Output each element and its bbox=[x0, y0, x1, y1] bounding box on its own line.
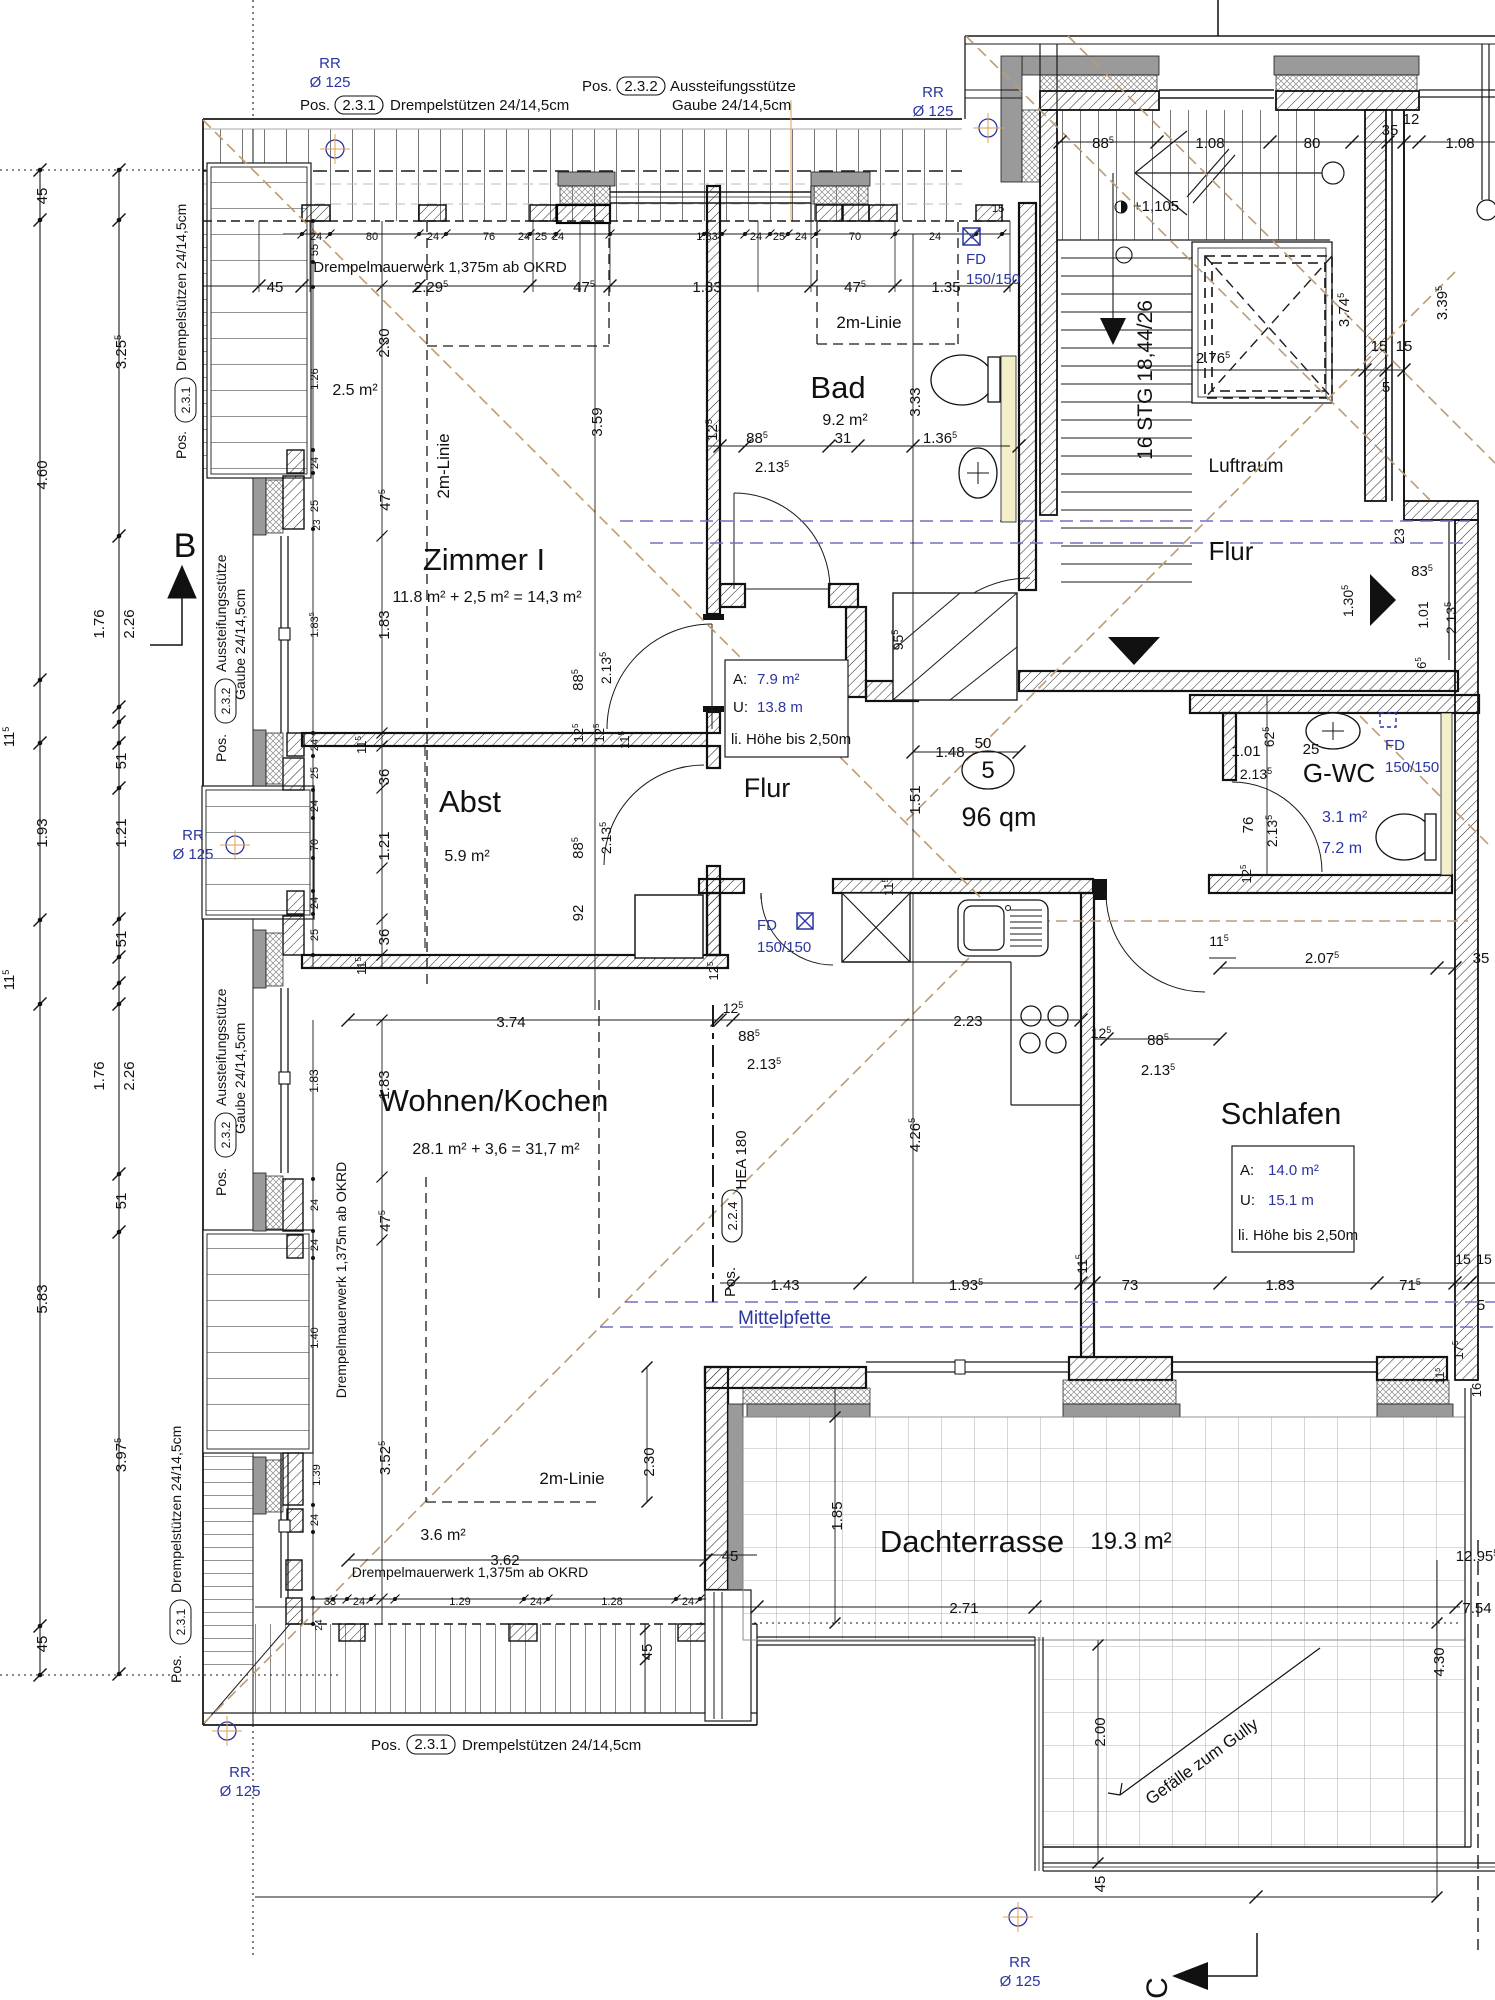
dormer box left 1 (Zimmer I gaube) bbox=[207, 163, 311, 478]
svg-text:2.3.1: 2.3.1 bbox=[174, 1608, 188, 1635]
svg-text:2.26: 2.26 bbox=[121, 609, 138, 638]
svg-text:Pos.: Pos. bbox=[582, 78, 612, 95]
door arc Bad bbox=[734, 493, 830, 589]
svg-text:24: 24 bbox=[309, 739, 321, 751]
svg-text:16 STG 18,44/26: 16 STG 18,44/26 bbox=[1134, 300, 1157, 460]
svg-text:Flur: Flur bbox=[1209, 536, 1254, 566]
wall terrace left vertical bbox=[705, 1367, 728, 1590]
stairwell gray cap right bbox=[1274, 56, 1419, 75]
RR marker bottom-center bbox=[1009, 1908, 1027, 1926]
svg-text:Ø 125: Ø 125 bbox=[173, 846, 214, 863]
left gray cap 4 bbox=[253, 1173, 266, 1231]
svg-text:12: 12 bbox=[1403, 111, 1420, 128]
dormer box left 3 (Wohnen gaube) bbox=[203, 1230, 313, 1453]
svg-text:35: 35 bbox=[1473, 950, 1490, 967]
left dormer window 3 bbox=[280, 1453, 282, 1598]
svg-text:45: 45 bbox=[34, 188, 51, 205]
svg-text:24: 24 bbox=[750, 231, 762, 243]
svg-text:25: 25 bbox=[309, 929, 321, 941]
svg-text:5.9 m²: 5.9 m² bbox=[444, 848, 490, 865]
insulation top left bbox=[560, 186, 610, 204]
svg-text:16: 16 bbox=[1469, 1383, 1484, 1397]
left gray cap 3 bbox=[253, 930, 266, 988]
svg-text:25: 25 bbox=[309, 500, 321, 512]
svg-text:51: 51 bbox=[113, 1193, 130, 1210]
gray cap terrace left bbox=[747, 1404, 870, 1417]
svg-text:3.74: 3.74 bbox=[496, 1014, 525, 1031]
stairwell wall hatch right bbox=[1276, 91, 1419, 110]
dim 1.85 terrace bbox=[834, 1388, 836, 1623]
svg-text:Bad: Bad bbox=[810, 370, 865, 405]
stairwell window top bbox=[1159, 89, 1274, 91]
drempel pier blocks top bbox=[302, 205, 330, 221]
toilet Bad bbox=[931, 355, 993, 405]
svg-text:35: 35 bbox=[1382, 122, 1399, 139]
svg-text:4.30: 4.30 bbox=[1431, 1647, 1448, 1676]
RR marker bottom-left bbox=[218, 1722, 236, 1740]
svg-text:24: 24 bbox=[309, 457, 321, 469]
dim chain x313 Wohnen bbox=[312, 1020, 314, 1624]
svg-text:51: 51 bbox=[113, 931, 130, 948]
right outer wall bbox=[1455, 520, 1478, 1380]
top small dim row bbox=[283, 233, 1010, 235]
wall G-WC left bbox=[1223, 713, 1236, 780]
dim chain x313 small bbox=[312, 221, 314, 968]
stairwell insulation left bbox=[1040, 75, 1157, 91]
HEA beam dash-dot line bbox=[712, 1005, 714, 1302]
stair arrow down bbox=[1100, 318, 1126, 345]
level marker circle bbox=[1116, 247, 1132, 263]
roof overhang band bottom bbox=[253, 1624, 757, 1713]
dim row Flur center bbox=[913, 751, 1019, 753]
insulation top right bbox=[813, 186, 868, 204]
2m-line dashed Bad box bbox=[816, 222, 818, 344]
svg-text:2.30: 2.30 bbox=[641, 1447, 658, 1476]
svg-text:Drempelstützen 24/14,5cm: Drempelstützen 24/14,5cm bbox=[390, 97, 569, 114]
neighbour roof edge top-right bbox=[965, 35, 1495, 37]
svg-text:2.3.1: 2.3.1 bbox=[342, 97, 375, 114]
svg-text:Drempelmauerwerk 1,375m ab OKR: Drempelmauerwerk 1,375m ab OKRD bbox=[313, 259, 567, 276]
svg-text:45: 45 bbox=[722, 1548, 739, 1565]
svg-text:Pos.: Pos. bbox=[722, 1267, 739, 1297]
insulation terrace left bbox=[743, 1388, 870, 1404]
svg-text:24: 24 bbox=[309, 897, 321, 909]
svg-text:1.21: 1.21 bbox=[376, 831, 393, 860]
washbasin G-WC bbox=[1306, 713, 1360, 749]
svg-text:Flur: Flur bbox=[744, 773, 791, 803]
roof hip dashed D4 G-WC bbox=[1360, 716, 1490, 846]
toilet G-WC bbox=[1376, 814, 1432, 860]
datum dotted horizontal terrace bbox=[700, 1622, 1460, 1624]
dim row bottom Schlafen bbox=[720, 1282, 1495, 1284]
svg-text:150/150: 150/150 bbox=[757, 939, 811, 956]
svg-text:1.76: 1.76 bbox=[91, 1061, 108, 1090]
svg-text:FD: FD bbox=[1385, 737, 1405, 754]
svg-text:Pos.: Pos. bbox=[173, 431, 189, 459]
svg-text:Mittelpfette: Mittelpfette bbox=[738, 1308, 831, 1329]
RR downpipe reference line top bbox=[790, 100, 792, 221]
svg-text:24: 24 bbox=[353, 1596, 365, 1608]
gray cap top left bbox=[558, 172, 615, 186]
dim row kitchen bbox=[720, 1019, 1081, 1021]
svg-text:Dachterrasse: Dachterrasse bbox=[880, 1524, 1064, 1559]
svg-text:B: B bbox=[174, 527, 197, 565]
roof hip dashed D3b top-right bbox=[1068, 36, 1495, 463]
terrace gutter right bbox=[1464, 1388, 1466, 1847]
svg-text:25: 25 bbox=[535, 231, 547, 243]
wall Flur bottom right run bbox=[1019, 671, 1458, 691]
svg-text:76: 76 bbox=[483, 231, 495, 243]
terrace door window band bbox=[1172, 1361, 1377, 1363]
svg-text:1.28: 1.28 bbox=[601, 1596, 622, 1608]
svg-text:3.59: 3.59 bbox=[589, 407, 606, 436]
svg-text:25: 25 bbox=[309, 767, 321, 779]
dim row Schlafen top bbox=[1220, 967, 1455, 969]
svg-text:1.48: 1.48 bbox=[935, 744, 964, 761]
svg-text:Luftraum: Luftraum bbox=[1209, 456, 1284, 477]
svg-text:FD: FD bbox=[966, 251, 986, 268]
roof overhang band left bbox=[203, 221, 253, 478]
2m-line dashed Wohnen horizontal bbox=[426, 1501, 601, 1503]
info box Schlafen bbox=[1232, 1146, 1354, 1252]
door arc G-WC bbox=[1232, 782, 1322, 872]
svg-text:li. Höhe bis 2,50m: li. Höhe bis 2,50m bbox=[731, 731, 851, 748]
svg-text:Drempelmauerwerk 1,375m ab OKR: Drempelmauerwerk 1,375m ab OKRD bbox=[352, 1564, 589, 1580]
svg-text:1.39: 1.39 bbox=[311, 1464, 323, 1485]
svg-text:2.135: 2.135 bbox=[755, 459, 789, 476]
dim row 3.62 bbox=[348, 1559, 706, 1561]
svg-text:2.3.2: 2.3.2 bbox=[624, 78, 657, 95]
left dim chain outer bbox=[39, 170, 41, 220]
gray cap top right bbox=[811, 172, 870, 186]
svg-text:1.83: 1.83 bbox=[692, 279, 721, 296]
svg-text:2m-Linie: 2m-Linie bbox=[434, 433, 453, 498]
svg-text:9.2 m²: 9.2 m² bbox=[822, 412, 868, 429]
right outer wall jog bbox=[1404, 501, 1478, 520]
left insulation 3 bbox=[266, 933, 283, 986]
left pier blocks lower-a bbox=[287, 891, 304, 914]
svg-text:1.21: 1.21 bbox=[113, 818, 130, 847]
dim 1.51 bbox=[912, 681, 914, 879]
roof hip dashed D3 top-right bbox=[966, 36, 1430, 500]
svg-text:2.135: 2.135 bbox=[747, 1056, 781, 1073]
svg-text:1.76: 1.76 bbox=[91, 609, 108, 638]
tiles strip Bad yellow bbox=[1001, 356, 1016, 522]
svg-text:1.40: 1.40 bbox=[309, 1327, 321, 1348]
roof ridge dashed H1 bbox=[1005, 920, 1468, 922]
svg-text:3.975: 3.975 bbox=[113, 1438, 130, 1472]
svg-text:73: 73 bbox=[1122, 1277, 1139, 1294]
svg-text:96 qm: 96 qm bbox=[961, 802, 1036, 832]
centerline top stairwell bbox=[1217, 0, 1219, 36]
svg-text:Ø 125: Ø 125 bbox=[1000, 1973, 1041, 1990]
door jamb Zimmer I bbox=[703, 614, 724, 620]
svg-text:Gaube 24/14,5cm: Gaube 24/14,5cm bbox=[232, 1023, 248, 1134]
svg-text:RR: RR bbox=[182, 827, 204, 844]
wall kitchen / Flur bbox=[833, 879, 1093, 893]
door arc Abst bbox=[604, 765, 704, 865]
svg-text:45: 45 bbox=[267, 279, 284, 296]
svg-text:2.2.4: 2.2.4 bbox=[725, 1202, 740, 1231]
svg-text:1.83: 1.83 bbox=[307, 1069, 321, 1093]
left dormer window 2 (Abst gaube) bbox=[280, 988, 282, 1173]
svg-text:2.5 m²: 2.5 m² bbox=[332, 382, 378, 399]
terrace rail vertical bbox=[1034, 1637, 1036, 1871]
storage box Flur bbox=[635, 895, 703, 958]
svg-text:2m-Linie: 2m-Linie bbox=[539, 1469, 604, 1488]
dim 3.33 Bad bbox=[912, 234, 914, 681]
left pier blocks upper bbox=[287, 450, 304, 473]
svg-text:Drempelstützen 24/14,5cm: Drempelstützen 24/14,5cm bbox=[462, 1737, 641, 1754]
wall Flur/Wohnen corner bbox=[699, 879, 744, 893]
svg-text:28.1 m² + 3,6 = 31,7 m²: 28.1 m² + 3,6 = 31,7 m² bbox=[412, 1141, 580, 1158]
dim 4.26 kitchen bbox=[912, 893, 914, 1283]
svg-text:2.3.1: 2.3.1 bbox=[414, 1736, 447, 1753]
dim row Schlafen bbox=[1094, 1038, 1220, 1040]
svg-text:24: 24 bbox=[309, 1239, 321, 1251]
terrace rail upper-left horizontal bbox=[757, 1636, 1035, 1638]
stair run arrow bbox=[1135, 172, 1322, 174]
svg-text:RR: RR bbox=[1009, 1954, 1031, 1971]
drempel pier blocks bottom bbox=[339, 1624, 365, 1641]
svg-text:1.01: 1.01 bbox=[1231, 743, 1260, 760]
svg-text:45: 45 bbox=[639, 1644, 656, 1661]
svg-text:5: 5 bbox=[981, 757, 994, 784]
svg-text:45: 45 bbox=[34, 1636, 51, 1653]
door arc Zimmer I bbox=[607, 624, 712, 729]
svg-text:1.93: 1.93 bbox=[34, 818, 51, 847]
svg-text:2.3.1: 2.3.1 bbox=[179, 386, 193, 413]
svg-text:1.51: 1.51 bbox=[907, 785, 924, 814]
svg-text:RR: RR bbox=[229, 1764, 251, 1781]
dim line bottom rail bbox=[255, 1896, 1437, 1898]
RR marker top-right bbox=[979, 119, 997, 137]
dim 45 terrace left bbox=[705, 1554, 757, 1556]
svg-text:24: 24 bbox=[795, 231, 807, 243]
svg-text:92: 92 bbox=[570, 905, 587, 922]
left insulation 1 bbox=[266, 480, 283, 533]
svg-text:2.765: 2.765 bbox=[1196, 350, 1230, 367]
left pier blocks mid bbox=[287, 733, 304, 756]
left insulation 5 bbox=[266, 1460, 283, 1512]
left gray cap 1 bbox=[253, 478, 266, 535]
svg-text:Schlafen: Schlafen bbox=[1221, 1096, 1342, 1131]
wall Bad bottom-left horizontal bbox=[720, 584, 745, 607]
svg-text:Aussteifungsstütze: Aussteifungsstütze bbox=[670, 78, 796, 95]
wall terrace top-left horizontal bbox=[705, 1367, 866, 1388]
drempel wall dashed line top bbox=[203, 220, 1010, 222]
roof corner miter bottom-left bbox=[203, 1624, 290, 1725]
svg-text:A:: A: bbox=[1240, 1162, 1254, 1179]
svg-text:2.23: 2.23 bbox=[953, 1013, 982, 1030]
svg-text:1.08: 1.08 bbox=[1195, 135, 1224, 152]
svg-text:Aussteifungsstütze: Aussteifungsstütze bbox=[213, 554, 229, 672]
terrace tile grid upper bbox=[743, 1417, 1465, 1640]
stairwell top connector lines bbox=[1039, 44, 1041, 110]
svg-text:Drempelstützen 24/14,5cm: Drempelstützen 24/14,5cm bbox=[173, 204, 189, 371]
stair outer corner piece bbox=[1001, 56, 1022, 182]
FD symbol Flur bbox=[797, 913, 813, 929]
window band top (Zimmer I dormer) bbox=[610, 191, 811, 193]
svg-text:150/150: 150/150 bbox=[1385, 759, 1439, 776]
wall Abst top bbox=[302, 733, 707, 746]
svg-text:1.29: 1.29 bbox=[449, 1596, 470, 1608]
stairwell insulation right bbox=[1276, 75, 1417, 91]
tiles strip G-WC yellow bbox=[1441, 713, 1452, 875]
svg-text:Ø 125: Ø 125 bbox=[913, 103, 954, 120]
door arc Flur center-right bbox=[917, 578, 1030, 691]
right edge dashed property line bbox=[1477, 1540, 1479, 1950]
svg-text:24: 24 bbox=[552, 231, 564, 243]
svg-text:7.54: 7.54 bbox=[1462, 1600, 1491, 1617]
wall Abst/Flur vertical lower bbox=[707, 866, 720, 955]
stair dim row bbox=[1057, 141, 1495, 143]
svg-text:3.6 m²: 3.6 m² bbox=[420, 1527, 466, 1544]
svg-text:2.30: 2.30 bbox=[376, 328, 393, 357]
svg-text:24: 24 bbox=[309, 800, 321, 812]
svg-text:24: 24 bbox=[309, 1514, 321, 1526]
svg-text:15: 15 bbox=[1476, 1251, 1492, 1267]
svg-text:C: C bbox=[1141, 1977, 1174, 1999]
svg-text:Zimmer I: Zimmer I bbox=[423, 542, 545, 577]
svg-text:1.85: 1.85 bbox=[829, 1501, 846, 1530]
svg-text:2.26: 2.26 bbox=[121, 1061, 138, 1090]
wall Bad nook vertical bbox=[846, 607, 866, 697]
svg-text:15: 15 bbox=[1396, 338, 1413, 355]
svg-text:24: 24 bbox=[682, 1596, 694, 1608]
stair lower dim line bbox=[1150, 369, 1404, 371]
terrace rail bottom horizontal bbox=[1043, 1862, 1495, 1864]
svg-text:li. Höhe bis 2,50m: li. Höhe bis 2,50m bbox=[1238, 1227, 1358, 1244]
svg-text:23: 23 bbox=[312, 519, 323, 531]
dim 45 bottom band bbox=[644, 1624, 646, 1713]
elevator shaft X diagonals bbox=[1205, 256, 1332, 398]
svg-text:13.8 m: 13.8 m bbox=[757, 699, 803, 716]
left dormer window 1 bbox=[280, 536, 282, 733]
svg-text:RR: RR bbox=[922, 84, 944, 101]
datum dotted vertical top-left bbox=[252, 0, 254, 119]
wall Abst/Flur vertical upper bbox=[707, 746, 720, 768]
wall G-WC top bbox=[1190, 695, 1479, 713]
shower square Bad bbox=[893, 593, 1017, 700]
left pier blocks Wohnen upper bbox=[283, 1179, 303, 1231]
elevator shaft dashed bbox=[1205, 256, 1332, 398]
dim 2.00 bbox=[1097, 1640, 1099, 1863]
svg-text:A:: A: bbox=[733, 671, 747, 688]
svg-text:1.35: 1.35 bbox=[931, 279, 960, 296]
datum dotted horizontal upper-left bbox=[0, 169, 310, 171]
svg-text:2.3.2: 2.3.2 bbox=[219, 1121, 233, 1148]
svg-text:Drempelmauerwerk 1,375m ab OKR: Drempelmauerwerk 1,375m ab OKRD bbox=[333, 1162, 349, 1399]
svg-text:12.955: 12.955 bbox=[1456, 1548, 1495, 1565]
svg-text:Gaube 24/14,5cm: Gaube 24/14,5cm bbox=[232, 589, 248, 700]
FD label top bbox=[963, 228, 980, 245]
svg-text:1.83: 1.83 bbox=[1265, 1277, 1294, 1294]
Mittelpfette dashed pair bbox=[625, 1301, 1495, 1303]
svg-text:2.00: 2.00 bbox=[1092, 1717, 1109, 1746]
svg-text:U:: U: bbox=[733, 699, 748, 716]
left dim chain inner bbox=[118, 170, 120, 1674]
svg-text:80: 80 bbox=[1304, 135, 1321, 152]
svg-text:11.8 m² + 2,5 m² = 14,3 m²: 11.8 m² + 2,5 m² = 14,3 m² bbox=[392, 589, 582, 606]
svg-text:7.2 m: 7.2 m bbox=[1322, 840, 1362, 857]
svg-text:2.295: 2.295 bbox=[414, 279, 448, 296]
svg-text:Drempelstützen 24/14,5cm: Drempelstützen 24/14,5cm bbox=[168, 1426, 184, 1593]
svg-text:U:: U: bbox=[1240, 1192, 1255, 1209]
dim row 2.71 bbox=[255, 1606, 1460, 1608]
wall Zimmer I / Bad divider bbox=[707, 186, 720, 614]
svg-text:Pos.: Pos. bbox=[371, 1737, 401, 1754]
svg-text:51: 51 bbox=[113, 753, 130, 770]
roof overhang band top bbox=[203, 129, 962, 221]
svg-text:25: 25 bbox=[773, 231, 785, 243]
svg-text:Gaube 24/14,5cm: Gaube 24/14,5cm bbox=[672, 97, 791, 114]
svg-text:Pos.: Pos. bbox=[213, 1168, 229, 1196]
washbasin Bad bbox=[959, 448, 997, 498]
left pier block bottom bbox=[286, 1560, 302, 1590]
wall Abst bottom bbox=[302, 955, 728, 968]
svg-text:2m-Linie: 2m-Linie bbox=[836, 313, 901, 332]
svg-text:3.1 m²: 3.1 m² bbox=[1322, 809, 1368, 826]
svg-text:14.0 m²: 14.0 m² bbox=[1268, 1162, 1319, 1179]
apartment number oval bbox=[962, 751, 1014, 789]
bottom small dim row bbox=[310, 1598, 706, 1600]
svg-text:36: 36 bbox=[376, 769, 393, 786]
dim row Bad 2.135 bbox=[707, 445, 1010, 447]
svg-text:FD: FD bbox=[757, 917, 777, 934]
svg-text:1.365: 1.365 bbox=[923, 430, 957, 447]
svg-text:15.1 m: 15.1 m bbox=[1268, 1192, 1314, 1209]
roof hip dashed D5 bbox=[204, 922, 1005, 1723]
svg-text:+1,105: +1,105 bbox=[1133, 198, 1179, 215]
dim 4.30 bbox=[1436, 1560, 1438, 1897]
left gray cap 2 bbox=[253, 730, 266, 786]
svg-text:7.9 m²: 7.9 m² bbox=[757, 671, 800, 688]
svg-text:G-WC: G-WC bbox=[1303, 758, 1375, 788]
neighbour right edge lines bbox=[1481, 44, 1483, 200]
svg-text:25: 25 bbox=[1303, 741, 1320, 758]
purlin dashed upper pair bbox=[620, 520, 1470, 522]
svg-text:24: 24 bbox=[530, 1596, 542, 1608]
svg-text:23: 23 bbox=[1391, 528, 1407, 544]
svg-text:55: 55 bbox=[309, 244, 321, 256]
svg-text:24: 24 bbox=[929, 231, 941, 243]
svg-text:31: 31 bbox=[835, 430, 852, 447]
door arc Flur-Wohnen (FD) bbox=[761, 893, 833, 965]
FD symbol G-WC bbox=[1380, 713, 1396, 727]
dormer corner post top (black) bbox=[557, 205, 610, 223]
svg-text:Wohnen/Kochen: Wohnen/Kochen bbox=[380, 1083, 609, 1118]
stair treads bbox=[1062, 110, 1330, 240]
top main dim row bbox=[203, 285, 1010, 287]
svg-text:50: 50 bbox=[975, 735, 992, 752]
svg-text:45: 45 bbox=[1092, 1876, 1109, 1893]
kitchen stove circles bbox=[1021, 1006, 1041, 1026]
svg-text:4.60: 4.60 bbox=[34, 460, 51, 489]
dim 3.59 Zimmer bbox=[594, 203, 596, 1010]
svg-text:RR: RR bbox=[319, 55, 341, 72]
wall Schlafen bottom pier right bbox=[1377, 1357, 1447, 1380]
2m-line dashed vertical left bbox=[426, 222, 428, 990]
svg-text:36: 36 bbox=[376, 929, 393, 946]
neighbour window right bbox=[1419, 89, 1495, 91]
stairwell left wall bbox=[1040, 110, 1057, 515]
info box Flur bbox=[725, 660, 848, 757]
svg-text:Ø 125: Ø 125 bbox=[310, 74, 351, 91]
left insulation 2 bbox=[266, 733, 283, 784]
svg-text:Pos.: Pos. bbox=[168, 1655, 184, 1683]
svg-text:1.01: 1.01 bbox=[1415, 601, 1431, 628]
